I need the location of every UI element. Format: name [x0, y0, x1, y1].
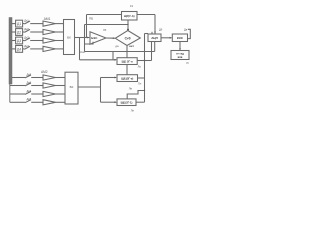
svg-text:Ла: Ла: [138, 64, 142, 68]
node dot jog: [144, 90, 145, 91]
lower distribution bus: [100, 78, 102, 103]
svg-text:ЩБ 2Г-п: ЩБ 2Г-п: [122, 59, 133, 63]
wire K6 to amp: [31, 85, 43, 87]
svg-text:АМ1: АМ1: [44, 17, 51, 21]
input wire 7: [10, 93, 25, 95]
ADC top stub: [151, 32, 153, 34]
svg-text:ЩБ(ЗГ-е): ЩБ(ЗГ-е): [121, 76, 133, 80]
right bus top tick: [145, 33, 149, 35]
svg-text:Д1: Д1: [17, 22, 21, 26]
switch K4: [24, 46, 30, 49]
svg-text:КЭС: КЭС: [177, 36, 184, 40]
node dot diamond top: [127, 29, 129, 31]
input wire 6: [10, 85, 25, 87]
svg-text:АЦП: АЦП: [151, 36, 158, 40]
wire K2 to amp: [30, 31, 43, 33]
mid horizontal wire: [85, 24, 129, 26]
sensor D4 wire: [12, 48, 16, 50]
wire K7 to amp: [31, 93, 43, 95]
node dot lower rail: [126, 51, 127, 52]
right bus: [144, 34, 146, 103]
sensor D3: [16, 37, 23, 44]
lower thin bus: [9, 84, 11, 102]
lower long rail: [85, 51, 155, 53]
indicator unit: [171, 51, 189, 60]
switch K1 wire: [23, 23, 25, 25]
sensor D4: [16, 46, 23, 53]
svg-text:Дк1: Дк1: [24, 19, 29, 23]
multiplexer MX1: [64, 20, 75, 55]
svg-text:АМ2: АМ2: [41, 70, 48, 74]
block B output wire: [138, 77, 145, 79]
amplifier A1: [43, 21, 56, 26]
ADC lower wire 1: [151, 42, 153, 61]
branch wire down from MX1 output: [79, 38, 81, 60]
svg-text:нет: нет: [129, 44, 134, 48]
object bus bar: [9, 18, 12, 85]
arrowhead into diamond: [113, 37, 115, 39]
wire A7 to MX2: [56, 93, 66, 95]
decision diamond: [115, 31, 140, 46]
wire K4 to amp: [30, 48, 43, 50]
wire A4 to MX1: [56, 48, 64, 50]
switch K2 wire: [23, 31, 25, 33]
svg-text:Дк6: Дк6: [27, 80, 32, 84]
svg-text:Лл: Лл: [138, 81, 142, 85]
amplifier A3: [43, 38, 56, 43]
svg-text:Д3: Д3: [17, 39, 21, 43]
wire A8 to MX2: [56, 101, 66, 103]
wire K8 to amp: [31, 101, 43, 103]
riser to lower rail: [84, 25, 86, 52]
sensor D1: [16, 20, 23, 27]
amplifier A8: [43, 100, 56, 105]
multiplexer MX2: [65, 72, 78, 104]
top feedback wire: [87, 14, 122, 16]
amplifier A5: [43, 75, 56, 80]
sensor D2 wire: [12, 31, 16, 33]
svg-text:Д2: Д2: [17, 30, 21, 34]
comparator U1: [90, 32, 106, 44]
svg-text:Дк3: Дк3: [24, 36, 29, 40]
sensor D2: [16, 29, 23, 36]
wire comparator to diamond: [106, 37, 115, 39]
KES output wire down: [179, 42, 181, 51]
reference Uop wire: [85, 42, 94, 44]
svg-text:Лб: Лб: [103, 28, 107, 32]
svg-text:Дк8: Дк8: [27, 97, 32, 101]
diamond bottom wire: [126, 46, 128, 58]
arrowhead into ADC: [154, 32, 156, 34]
block B: [117, 75, 138, 82]
arrowhead into block B: [114, 77, 117, 79]
switch K4 wire: [23, 48, 25, 50]
amplifier A7: [43, 91, 56, 96]
arrowhead into indicator: [179, 48, 181, 50]
svg-text:С≠0: С≠0: [125, 36, 131, 40]
ADC lower wire 2: [154, 42, 156, 52]
svg-text:Дк5: Дк5: [27, 72, 32, 76]
input wire 8: [10, 101, 25, 103]
block A output wire: [137, 60, 151, 62]
branch down to block A feed: [112, 52, 114, 60]
wire A to B: [126, 65, 128, 75]
svg-text:Лн: Лн: [131, 109, 135, 113]
svg-text:Дб: Дб: [159, 27, 163, 31]
arrowhead into block C: [114, 101, 117, 103]
ADC unit: [148, 34, 161, 42]
switch K5: [25, 75, 31, 78]
svg-text:впв: впв: [178, 56, 183, 59]
wire A2 to MX1: [56, 31, 64, 33]
svg-text:Дк2: Дк2: [24, 27, 29, 31]
node dot mid wire: [127, 24, 128, 25]
wire A5 to MX2: [56, 77, 66, 79]
feedback riser PB: [86, 15, 88, 38]
svg-text:ПБ: ПБ: [89, 16, 93, 20]
node dot A out: [144, 60, 145, 61]
svg-text:БЗС: БЗС: [91, 36, 98, 40]
block A: [117, 58, 137, 65]
wire K1 to amp: [30, 23, 43, 25]
top wire RE to right: [137, 14, 155, 16]
switch K1: [24, 21, 30, 24]
drop wire into ADC: [154, 15, 156, 34]
register unit RE: [122, 12, 138, 21]
svg-text:ЩБ(2Г-1): ЩБ(2Г-1): [121, 101, 133, 105]
switch K3 wire: [23, 40, 25, 42]
sensor D1 wire: [12, 23, 16, 25]
svg-text:Дк7: Дк7: [27, 89, 32, 93]
switch K2: [24, 29, 30, 32]
svg-text:Дк4: Дк4: [24, 44, 29, 48]
block A feed wire: [80, 59, 117, 61]
arrowhead into KES: [170, 37, 173, 39]
switch K8: [25, 100, 31, 103]
switch K3: [24, 38, 30, 41]
wire bus to block C: [101, 101, 117, 103]
svg-text:Uоп: Uоп: [80, 50, 86, 54]
block C: [117, 99, 136, 106]
wire A3 to MX1: [56, 40, 64, 42]
block C output wire: [136, 101, 145, 103]
amplifier A2: [43, 29, 56, 34]
wire bus to block B: [101, 77, 117, 79]
switch K7: [25, 91, 31, 94]
arrowhead into block A: [114, 59, 117, 61]
MX2 output wire: [78, 86, 101, 88]
wire MX1 output to comparator: [75, 37, 90, 39]
lower amp group: input wire 5: [12, 77, 25, 79]
wire K3 to amp: [30, 40, 43, 42]
svg-text:Д4: Д4: [17, 47, 21, 51]
switch K6: [25, 83, 31, 86]
wire A6 to MX2: [56, 85, 66, 87]
arrowhead into comparator: [87, 37, 90, 39]
amplifier A4: [43, 46, 56, 51]
wire A1 to MX1: [56, 23, 64, 25]
wire K5 to amp: [31, 77, 43, 79]
svg-text:БК: БК: [67, 35, 71, 39]
wire ADC to KES: [161, 37, 171, 39]
svg-text:ЩУ(У-А): ЩУ(У-А): [124, 14, 135, 18]
jog wire bus to block C: [127, 91, 144, 99]
svg-text:БК: БК: [70, 85, 74, 89]
KES unit: [172, 34, 187, 42]
RE to diamond wire: [127, 20, 129, 30]
amplifier A6: [43, 83, 56, 88]
sensor D3 wire: [12, 40, 16, 42]
edge connector bracket: [188, 29, 191, 38]
svg-text:да: да: [115, 44, 119, 48]
